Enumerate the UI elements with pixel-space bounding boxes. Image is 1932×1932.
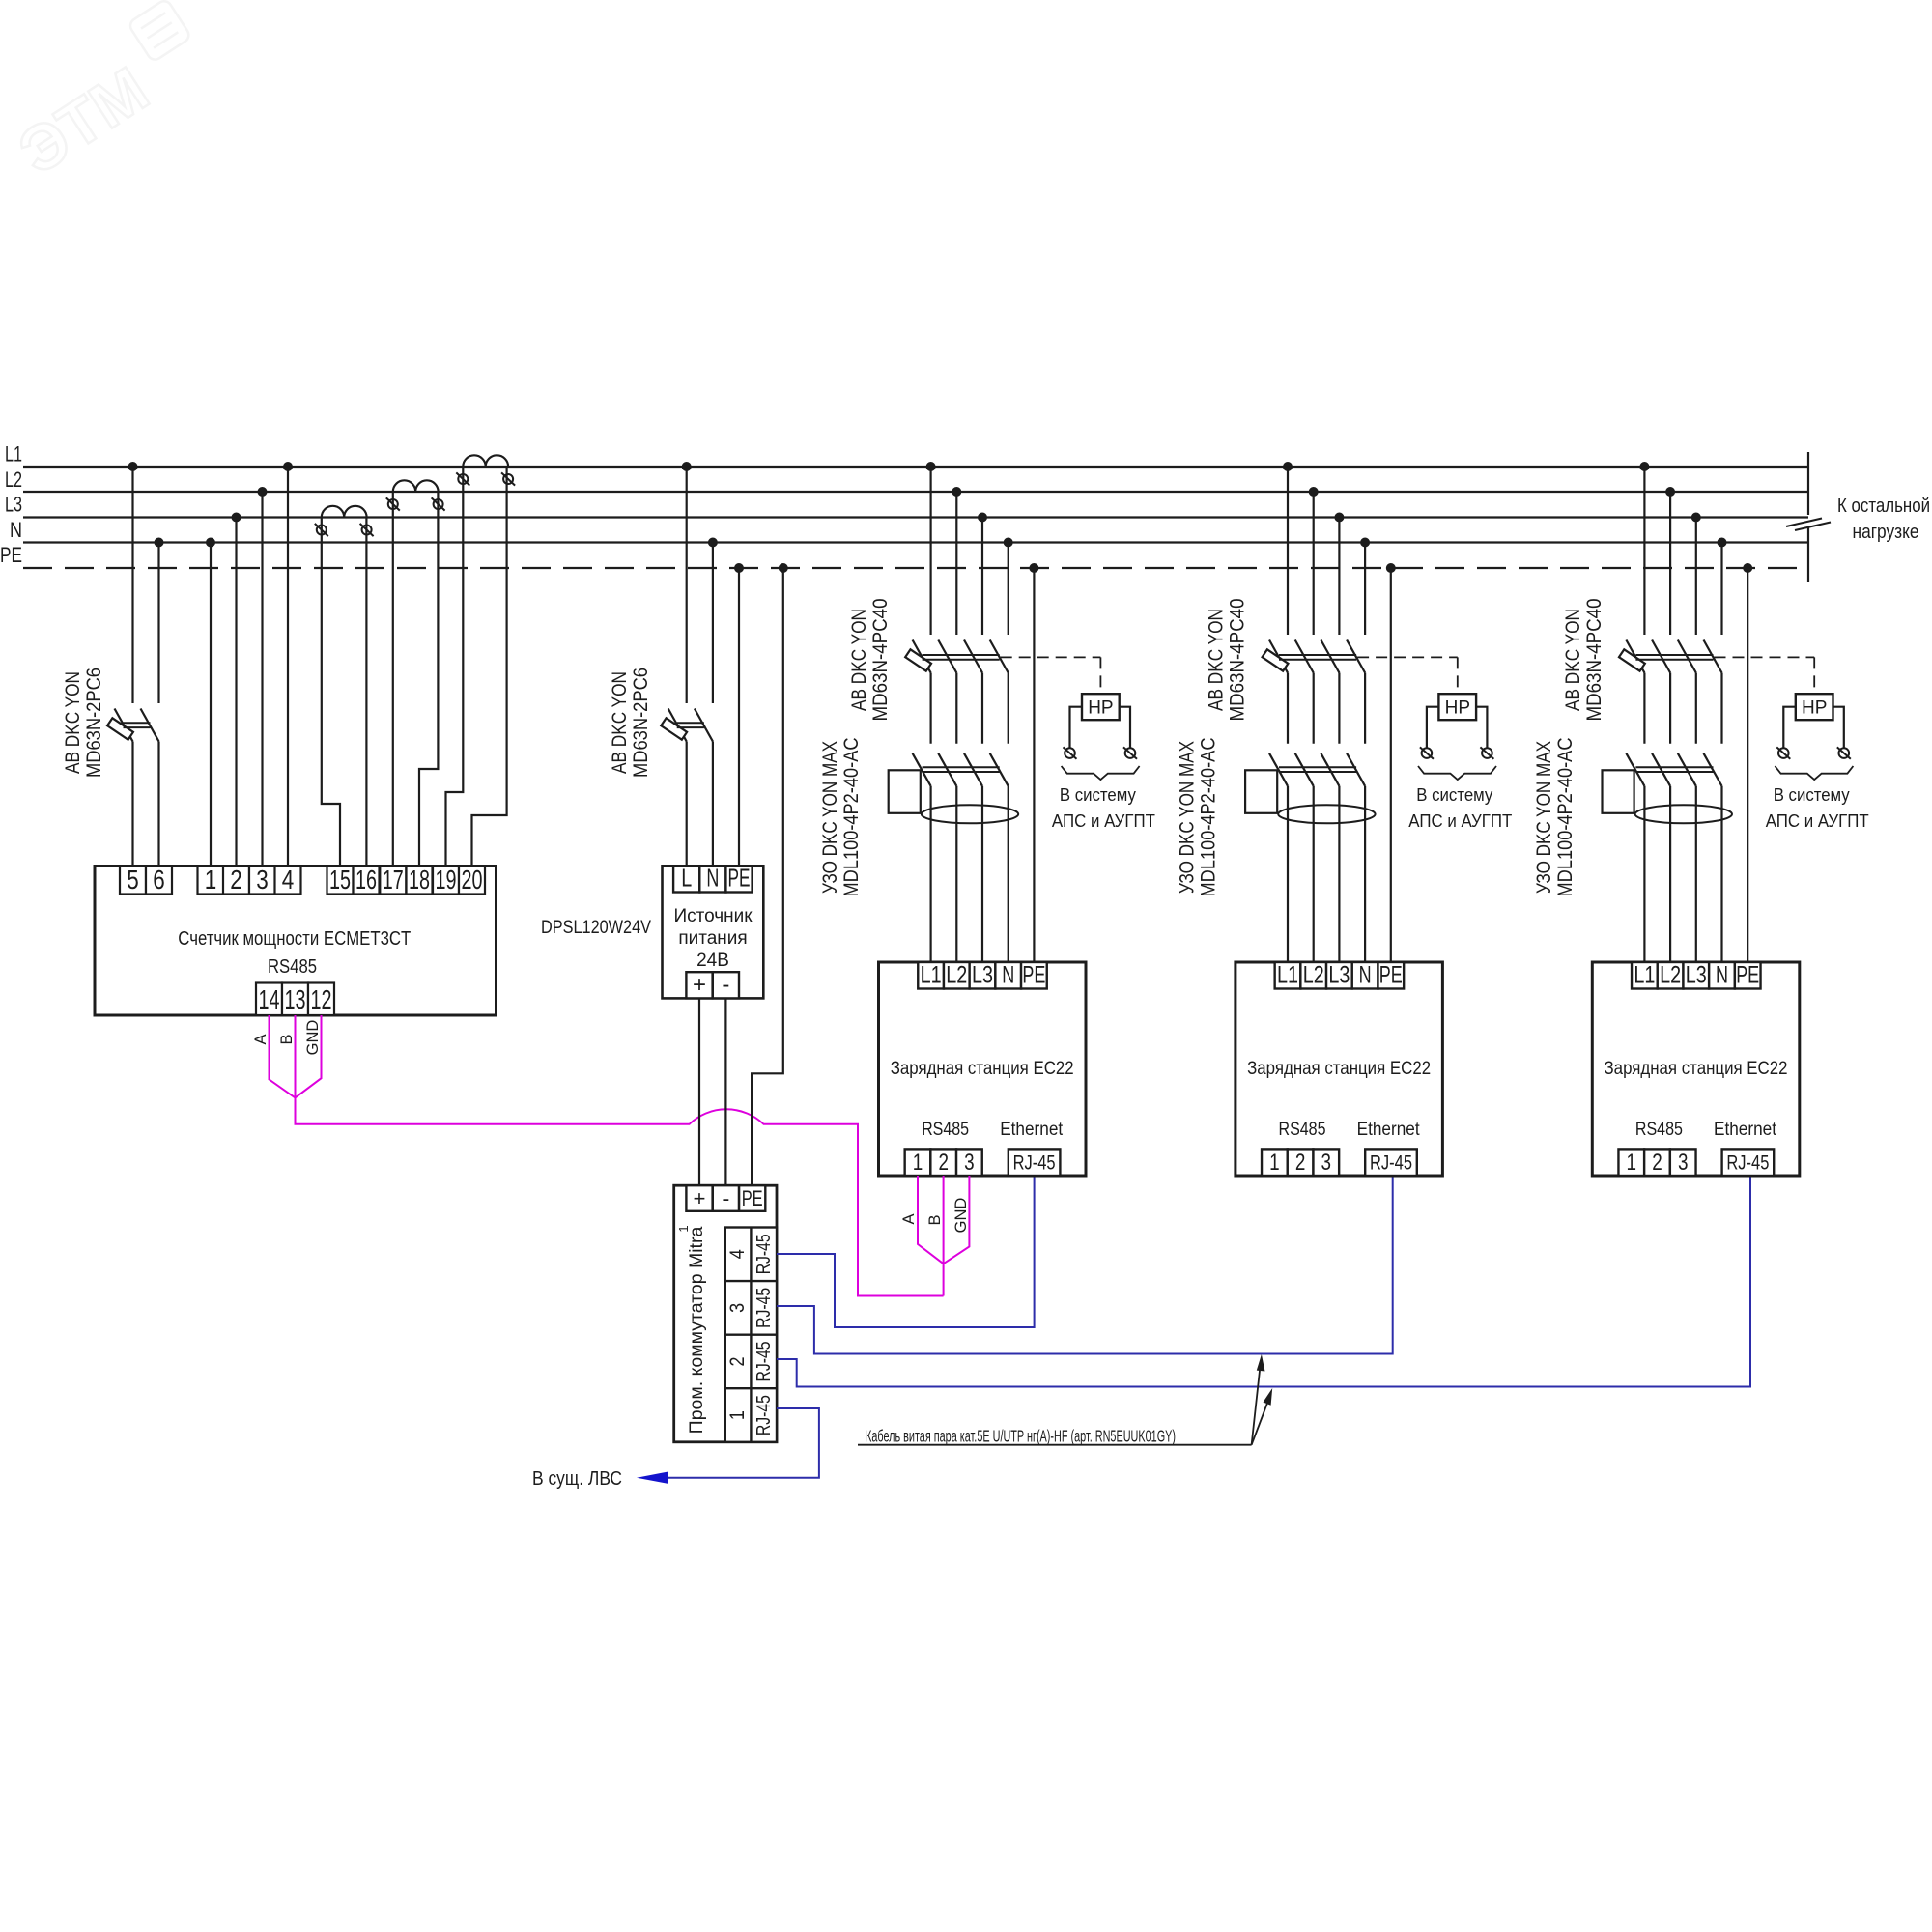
svg-text:В: В bbox=[926, 1214, 944, 1225]
svg-text:N: N bbox=[1359, 962, 1372, 989]
current transformer TA1 on L3 bbox=[322, 506, 367, 518]
node: L1 tap to meter term 4 bbox=[283, 462, 293, 471]
svg-text:RJ-45: RJ-45 bbox=[1370, 1152, 1412, 1175]
svg-text:18: 18 bbox=[409, 865, 430, 895]
svg-text:L1: L1 bbox=[5, 442, 22, 467]
wire RS485 B (station 1 terminal 2) bbox=[943, 1176, 945, 1296]
label: Кабель витая пара кат.5Е U/UTP нг(А)-HF (арт. RN5EUUK01GY) bbox=[858, 1427, 1252, 1446]
wire RS485 GND (station 1 terminal 3) bbox=[944, 1176, 970, 1264]
svg-text:RJ-45: RJ-45 bbox=[1726, 1152, 1769, 1175]
connector circle right (station 3) bbox=[1837, 747, 1851, 758]
svg-text:15: 15 bbox=[329, 865, 351, 895]
dashed link QF4 to HP release bbox=[1357, 657, 1458, 694]
wire L2 to QF5 pole2 bbox=[1669, 492, 1671, 635]
node: PE tap station 3 bbox=[1743, 563, 1752, 573]
wire НР right contact (station 2) bbox=[1476, 707, 1487, 749]
wire N to QF2 pole2 bbox=[712, 543, 714, 704]
svg-text:1: 1 bbox=[913, 1150, 923, 1176]
svg-text:RJ-45: RJ-45 bbox=[1013, 1152, 1056, 1175]
station 1 RJ-45 terminal bbox=[1009, 1149, 1061, 1176]
svg-text:16: 16 bbox=[355, 865, 377, 895]
svg-text:3: 3 bbox=[256, 865, 269, 895]
svg-text:RJ-45: RJ-45 bbox=[753, 1342, 775, 1382]
svg-text:1: 1 bbox=[726, 1410, 749, 1420]
power meter box (Счетчик мощности ECMET3CT) bbox=[95, 867, 497, 1016]
svg-text:Ethernet: Ethernet bbox=[1357, 1119, 1421, 1140]
svg-text:Счетчик мощности ECMET3CT: Счетчик мощности ECMET3CT bbox=[178, 928, 411, 950]
wire L1 to QF4 pole1 bbox=[1287, 467, 1289, 635]
charging station box 1 (Зарядная станция EC22) bbox=[879, 962, 1087, 1176]
charging station box 3 (Зарядная станция EC22) bbox=[1592, 962, 1800, 1176]
svg-text:1: 1 bbox=[1269, 1150, 1280, 1176]
wire L1 to QF2 pole1 bbox=[686, 467, 688, 703]
wire PE to station 2 PE terminal bbox=[1390, 568, 1392, 962]
leader arrow to port3 cable bbox=[1252, 1354, 1265, 1445]
svg-text:Кабель витая пара кат.5Е U/UTP: Кабель витая пара кат.5Е U/UTP нг(А)-HF … bbox=[866, 1427, 1176, 1446]
wire RS485 A (station 1 terminal 1) bbox=[918, 1176, 944, 1264]
bus PE (dashed) bbox=[23, 567, 1808, 569]
label: К остальной нагрузке bbox=[1837, 496, 1930, 543]
dashed link QF5 to HP release bbox=[1715, 657, 1815, 694]
station 3 RJ-45 terminal bbox=[1722, 1149, 1775, 1176]
svg-text:12: 12 bbox=[311, 984, 332, 1014]
RCD QD3 (УЗО DKC YON MAX MDL100-4P2-40-AC), 4-pole bbox=[1603, 753, 1733, 962]
wire N to meter terminal 1 bbox=[210, 543, 212, 867]
connector circle left (station 2) bbox=[1420, 747, 1434, 758]
svg-text:В систему: В систему bbox=[1774, 784, 1851, 805]
svg-text:17: 17 bbox=[383, 865, 404, 895]
ethernet wire: switch port 2 to station 3 RJ-45 bbox=[777, 1176, 1750, 1387]
leader arrow to port2 cable bbox=[1252, 1388, 1273, 1445]
bus N bbox=[23, 541, 1808, 543]
brace to АПС (station 2) bbox=[1418, 766, 1496, 780]
connector circle right (station 2) bbox=[1480, 747, 1493, 758]
svg-text:L2: L2 bbox=[1660, 962, 1681, 989]
station 2 RJ-45 terminal bbox=[1365, 1149, 1417, 1176]
wire TA3-k to meter terminal 19 bbox=[446, 467, 464, 867]
bus L3 bbox=[23, 516, 1808, 518]
wire PSU - to switch - bbox=[724, 998, 726, 1185]
wire L3 to meter terminal 2 bbox=[235, 518, 237, 867]
svg-text:RJ-45: RJ-45 bbox=[753, 1288, 775, 1328]
svg-text:RJ-45: RJ-45 bbox=[753, 1395, 775, 1435]
node: L3 tap station 1 bbox=[978, 513, 987, 523]
svg-text:3: 3 bbox=[726, 1303, 749, 1313]
svg-text:3: 3 bbox=[1321, 1150, 1332, 1176]
svg-text:PE: PE bbox=[1736, 962, 1759, 989]
svg-text:В: В bbox=[278, 1034, 296, 1044]
dashed link QF3 to HP release bbox=[1001, 657, 1101, 694]
wire TA2-l to meter terminal 18 bbox=[419, 492, 438, 867]
current transformer TA3 on L1 bbox=[463, 455, 508, 467]
svg-text:питания: питания bbox=[678, 928, 747, 949]
wire PE to PSU PE terminal bbox=[738, 568, 740, 866]
svg-text:2: 2 bbox=[1652, 1150, 1662, 1176]
svg-text:+: + bbox=[694, 1186, 706, 1210]
svg-text:2: 2 bbox=[1295, 1150, 1306, 1176]
svg-text:L2: L2 bbox=[1303, 962, 1324, 989]
svg-text:АВ DKC YON: АВ DKC YON bbox=[609, 671, 631, 774]
ethernet wire: switch port 1 to existing LAN bbox=[666, 1408, 819, 1478]
svg-text:MDL100-4P2-40-AC: MDL100-4P2-40-AC bbox=[1197, 738, 1219, 897]
wire L3 to QF5 pole3 bbox=[1695, 518, 1697, 636]
svg-text:MDL100-4P2-40-AC: MDL100-4P2-40-AC bbox=[1554, 738, 1577, 897]
svg-text:13: 13 bbox=[285, 984, 306, 1014]
svg-text:А: А bbox=[252, 1034, 270, 1044]
svg-text:-: - bbox=[722, 1186, 729, 1210]
svg-text:MDL100-4P2-40-AC: MDL100-4P2-40-AC bbox=[840, 738, 863, 897]
current transformer TA2 on L2 bbox=[393, 480, 439, 492]
label: АВ DKC YON MD63N-4PC40 (station 1) bbox=[848, 599, 892, 722]
svg-text:К остальной: К остальной bbox=[1837, 496, 1930, 517]
wire RS485 GND (meter terminal 12) bbox=[296, 1015, 322, 1097]
wire N to QF5 pole4 bbox=[1720, 543, 1722, 636]
node: N tap station 1 bbox=[1004, 538, 1013, 548]
svg-text:УЗО DKC YON MAX: УЗО DKC YON MAX bbox=[1176, 741, 1198, 894]
node: PE tap station 1 bbox=[1029, 563, 1038, 573]
svg-text:1: 1 bbox=[676, 1225, 691, 1232]
label: В систему АПС и АУГПТ (station 1) bbox=[1052, 784, 1155, 831]
shunt release НР (station 3) bbox=[1796, 694, 1833, 720]
svg-text:4: 4 bbox=[282, 865, 295, 895]
wire PE to switch PE terminal bbox=[752, 568, 783, 1185]
node: PE tap station 2 bbox=[1386, 563, 1396, 573]
svg-text:АПС и АУГПТ: АПС и АУГПТ bbox=[1766, 810, 1869, 831]
svg-text:Зарядная станция EC22: Зарядная станция EC22 bbox=[1247, 1058, 1431, 1079]
svg-text:N: N bbox=[10, 518, 22, 542]
wire L2 to meter terminal 3 bbox=[261, 492, 263, 867]
svg-text:20: 20 bbox=[462, 865, 483, 895]
svg-text:УЗО DKC YON MAX: УЗО DKC YON MAX bbox=[1533, 741, 1555, 894]
svg-text:УЗО DKC YON MAX: УЗО DKC YON MAX bbox=[819, 741, 841, 894]
wire НР left contact (station 2) bbox=[1427, 707, 1439, 749]
wire L3 to QF3 pole3 bbox=[981, 518, 983, 636]
svg-text:L2: L2 bbox=[946, 962, 967, 989]
station 3 terminals L1,L2,L3,N,PE bbox=[1632, 962, 1760, 989]
wire N to QF1 pole2 bbox=[157, 543, 159, 704]
svg-text:N: N bbox=[1002, 962, 1014, 989]
node: L3 tap station 3 bbox=[1691, 513, 1701, 523]
svg-text:PE: PE bbox=[1379, 962, 1403, 989]
label: АВ DKC YON MD63N-2PC6 (PSU breaker) bbox=[609, 668, 652, 778]
svg-text:3: 3 bbox=[964, 1150, 975, 1176]
label: УЗО DKC YON MAX MDL100-4P2-40-AC (station 3) bbox=[1533, 738, 1577, 897]
svg-text:RS485: RS485 bbox=[1635, 1119, 1683, 1140]
wire НР right contact (station 3) bbox=[1833, 707, 1844, 749]
connector circle left (station 3) bbox=[1776, 747, 1790, 758]
node: N tap to QF2 bbox=[708, 538, 718, 548]
svg-text:PE: PE bbox=[728, 864, 751, 893]
svg-text:L1: L1 bbox=[1277, 962, 1298, 989]
station 2 terminals L1,L2,L3,N,PE bbox=[1275, 962, 1404, 989]
wire L1 to QF5 pole1 bbox=[1643, 467, 1645, 635]
wire RS485 bus from meter to station 1 (magenta) bbox=[296, 1097, 944, 1295]
circuit breaker QF2 (АВ DKC YON MD63N-2PC6), 2-pole bbox=[661, 709, 713, 867]
connector circle right (station 1) bbox=[1123, 747, 1137, 758]
wire НР left contact (station 1) bbox=[1070, 707, 1083, 749]
wire TA3-l to meter terminal 20 bbox=[472, 467, 507, 867]
wire TA1-k to meter terminal 15 bbox=[322, 518, 340, 867]
svg-text:L2: L2 bbox=[5, 468, 22, 492]
wire N to QF4 pole4 bbox=[1364, 543, 1366, 636]
wire PE to station 1 PE terminal bbox=[1033, 568, 1035, 962]
svg-text:Зарядная станция EC22: Зарядная станция EC22 bbox=[891, 1058, 1074, 1079]
svg-text:Зарядная станция EC22: Зарядная станция EC22 bbox=[1605, 1058, 1788, 1079]
label: АВ DKC YON MD63N-2PC6 (meter breaker) bbox=[62, 668, 105, 778]
svg-text:нагрузке: нагрузке bbox=[1853, 522, 1919, 543]
switch RJ-45 port table bbox=[725, 1228, 777, 1442]
label: АВ DKC YON MD63N-4PC40 (station 3) bbox=[1562, 599, 1605, 722]
circuit breaker QF4 (АВ DKC YON MD63N-4PC40), 4-pole bbox=[1263, 640, 1366, 744]
svg-text:-: - bbox=[722, 972, 729, 998]
svg-text:4: 4 bbox=[726, 1249, 749, 1259]
node: L3 tap to meter term 2 bbox=[232, 513, 241, 523]
power supply box (Источник питания 24В) bbox=[663, 866, 764, 998]
node: N tap to meter term 1 bbox=[206, 538, 215, 548]
svg-text:1: 1 bbox=[1627, 1150, 1637, 1176]
svg-text:АВ DKC YON: АВ DKC YON bbox=[1562, 609, 1584, 711]
label: УЗО DKC YON MAX MDL100-4P2-40-AC (station 2) bbox=[1176, 738, 1219, 897]
svg-text:1: 1 bbox=[205, 865, 217, 895]
wire N to QF3 pole4 bbox=[1008, 543, 1009, 636]
node: N tap to QF1 bbox=[155, 538, 164, 548]
wire L1 to QF1 pole1 bbox=[131, 467, 133, 703]
svg-text:2: 2 bbox=[230, 865, 242, 895]
svg-text:НР: НР bbox=[1088, 698, 1113, 719]
wire PE to station 3 PE terminal bbox=[1747, 568, 1748, 962]
wire L2 to QF4 pole2 bbox=[1313, 492, 1315, 635]
svg-text:MD63N-4PC40: MD63N-4PC40 bbox=[1583, 599, 1605, 722]
svg-text:RJ-45: RJ-45 bbox=[753, 1234, 775, 1274]
svg-text:L1: L1 bbox=[1634, 962, 1655, 989]
circuit breaker QF3 (АВ DKC YON MD63N-4PC40), 4-pole bbox=[905, 640, 1009, 744]
meter terminals 1,2,3,4 bbox=[198, 865, 301, 895]
svg-text:Пром. коммутатор Mitra: Пром. коммутатор Mitra bbox=[686, 1227, 707, 1435]
svg-text:PE: PE bbox=[1022, 962, 1045, 989]
shunt release НР (station 1) bbox=[1082, 694, 1120, 720]
svg-text:14: 14 bbox=[259, 984, 280, 1014]
arrow: В сущ. ЛВС bbox=[637, 1472, 668, 1484]
wire PSU + to switch + bbox=[698, 998, 700, 1185]
wire TA2-k to meter terminal 17 bbox=[392, 492, 394, 867]
node: N tap station 3 bbox=[1718, 538, 1727, 548]
node: L3 tap station 2 bbox=[1334, 513, 1344, 523]
svg-text:АВ DKC YON: АВ DKC YON bbox=[848, 609, 870, 711]
label: АВ DKC YON MD63N-4PC40 (station 2) bbox=[1205, 599, 1248, 722]
wire НР right contact (station 1) bbox=[1120, 707, 1130, 749]
svg-text:АПС и АУГПТ: АПС и АУГПТ bbox=[1408, 810, 1512, 831]
station 3 RS485 terminals 1,2,3 bbox=[1618, 1149, 1695, 1176]
node: L1 tap to QF2 bbox=[682, 462, 692, 471]
station 1 terminals L1,L2,L3,N,PE bbox=[918, 962, 1047, 989]
bus L1 bbox=[23, 466, 1808, 468]
svg-text:АВ DKC YON: АВ DKC YON bbox=[62, 671, 84, 774]
node: L2 tap station 2 bbox=[1309, 487, 1319, 497]
node: L2 tap to meter term 3 bbox=[258, 487, 268, 497]
wire TA1-l to meter terminal 16 bbox=[365, 518, 367, 867]
node: L1 tap station 1 bbox=[926, 462, 936, 471]
svg-text:А: А bbox=[900, 1213, 918, 1224]
svg-text:НР: НР bbox=[1802, 698, 1827, 719]
svg-text:19: 19 bbox=[436, 865, 457, 895]
label: В систему АПС и АУГПТ (station 3) bbox=[1766, 784, 1869, 831]
switch terminals +,-,PE bbox=[686, 1185, 765, 1211]
label: Источник питания 24В bbox=[673, 906, 753, 971]
wire L1 to meter terminal 4 bbox=[287, 467, 289, 867]
node: L2 tap station 3 bbox=[1665, 487, 1675, 497]
svg-text:PE: PE bbox=[0, 543, 22, 567]
station 1 RS485 terminals 1,2,3 bbox=[905, 1149, 982, 1176]
wire RS485 A (meter terminal 14) bbox=[270, 1015, 296, 1097]
node: L1 tap to QF1 bbox=[128, 462, 138, 471]
svg-text:GND: GND bbox=[304, 1020, 322, 1056]
svg-text:L1: L1 bbox=[921, 962, 942, 989]
svg-text:2: 2 bbox=[938, 1150, 949, 1176]
charging station box 2 (Зарядная станция EC22) bbox=[1236, 962, 1443, 1176]
label: УЗО DKC YON MAX MDL100-4P2-40-AC (station 1) bbox=[819, 738, 863, 897]
wire RS485 B (meter terminal 13) bbox=[295, 1015, 297, 1124]
wire L2 to QF3 pole2 bbox=[955, 492, 957, 635]
circuit breaker QF5 (АВ DKC YON MD63N-4PC40), 4-pole bbox=[1619, 640, 1722, 744]
svg-text:6: 6 bbox=[153, 865, 165, 895]
node: PE tap to PSU bbox=[734, 563, 744, 573]
connector circle left (station 1) bbox=[1064, 747, 1077, 758]
svg-text:N: N bbox=[1716, 962, 1728, 989]
meter terminals 5,6 bbox=[120, 865, 172, 895]
shunt release НР (station 2) bbox=[1438, 694, 1476, 720]
node: L1 tap station 2 bbox=[1283, 462, 1293, 471]
circuit breaker QF1 (АВ DKC YON MD63N-2PC6), 2-pole bbox=[107, 709, 158, 867]
wire L3 to QF4 pole3 bbox=[1338, 518, 1340, 636]
svg-text:2: 2 bbox=[726, 1357, 749, 1367]
svg-text:GND: GND bbox=[952, 1198, 970, 1234]
svg-text:АВ DKC YON: АВ DKC YON bbox=[1205, 609, 1227, 711]
svg-text:В систему: В систему bbox=[1416, 784, 1493, 805]
svg-text:MD63N-2PC6: MD63N-2PC6 bbox=[83, 668, 105, 778]
svg-text:L: L bbox=[681, 864, 692, 893]
ethernet wire: switch port 3 to station 2 RJ-45 bbox=[777, 1176, 1393, 1354]
svg-text:В систему: В систему bbox=[1060, 784, 1137, 805]
ethernet wire: switch port 4 to station 1 RJ-45 bbox=[777, 1176, 1035, 1327]
svg-text:+: + bbox=[693, 972, 706, 998]
station 2 RS485 terminals 1,2,3 bbox=[1262, 1149, 1339, 1176]
svg-text:MD63N-4PC40: MD63N-4PC40 bbox=[1226, 599, 1248, 722]
svg-text:24В: 24В bbox=[696, 951, 729, 971]
node: L1 tap station 3 bbox=[1639, 462, 1649, 471]
brace to АПС (station 3) bbox=[1775, 766, 1853, 780]
svg-text:L3: L3 bbox=[1328, 962, 1350, 989]
svg-text:3: 3 bbox=[1678, 1150, 1689, 1176]
bus L2 bbox=[23, 491, 1808, 493]
svg-text:RS485: RS485 bbox=[268, 956, 317, 978]
svg-text:5: 5 bbox=[127, 865, 139, 895]
svg-text:PE: PE bbox=[742, 1186, 763, 1210]
PSU terminals L,N,PE bbox=[673, 864, 753, 893]
wire L1 to QF3 pole1 bbox=[929, 467, 931, 635]
svg-text:Источник: Источник bbox=[673, 906, 753, 926]
svg-text:MD63N-2PC6: MD63N-2PC6 bbox=[630, 668, 652, 778]
node: N tap station 2 bbox=[1360, 538, 1370, 548]
svg-text:L3: L3 bbox=[5, 493, 22, 517]
svg-text:N: N bbox=[706, 864, 719, 893]
svg-text:Ethernet: Ethernet bbox=[1714, 1119, 1777, 1140]
svg-text:MD63N-4PC40: MD63N-4PC40 bbox=[869, 599, 892, 722]
svg-text:RS485: RS485 bbox=[1279, 1119, 1326, 1140]
bus break symbol (right end) bbox=[1786, 452, 1831, 582]
RCD QD1 (УЗО DKC YON MAX MDL100-4P2-40-AC), 4-pole bbox=[889, 753, 1018, 962]
label: В систему АПС и АУГПТ (station 2) bbox=[1408, 784, 1512, 831]
meter terminals 15-20 bbox=[327, 865, 486, 895]
meter terminals 14,13,12 bbox=[256, 983, 334, 1016]
wire НР left contact (station 3) bbox=[1783, 707, 1796, 749]
PSU terminals +,- bbox=[686, 972, 739, 998]
industrial switch box (Пром. коммутатор Mitra) bbox=[674, 1185, 777, 1442]
node: PE tap to switch bbox=[779, 563, 788, 573]
node: L2 tap station 1 bbox=[952, 487, 961, 497]
svg-text:L3: L3 bbox=[972, 962, 993, 989]
svg-text:RS485: RS485 bbox=[922, 1119, 969, 1140]
svg-text:В сущ. ЛВС: В сущ. ЛВС bbox=[532, 1468, 622, 1490]
svg-text:DPSL120W24V: DPSL120W24V bbox=[541, 917, 651, 938]
svg-text:L3: L3 bbox=[1686, 962, 1707, 989]
svg-text:НР: НР bbox=[1445, 698, 1470, 719]
brace to АПС (station 1) bbox=[1062, 766, 1140, 780]
svg-text:Ethernet: Ethernet bbox=[1000, 1119, 1064, 1140]
RCD QD2 (УЗО DKC YON MAX MDL100-4P2-40-AC), 4-pole bbox=[1245, 753, 1376, 962]
svg-text:АПС и АУГПТ: АПС и АУГПТ bbox=[1052, 810, 1155, 831]
